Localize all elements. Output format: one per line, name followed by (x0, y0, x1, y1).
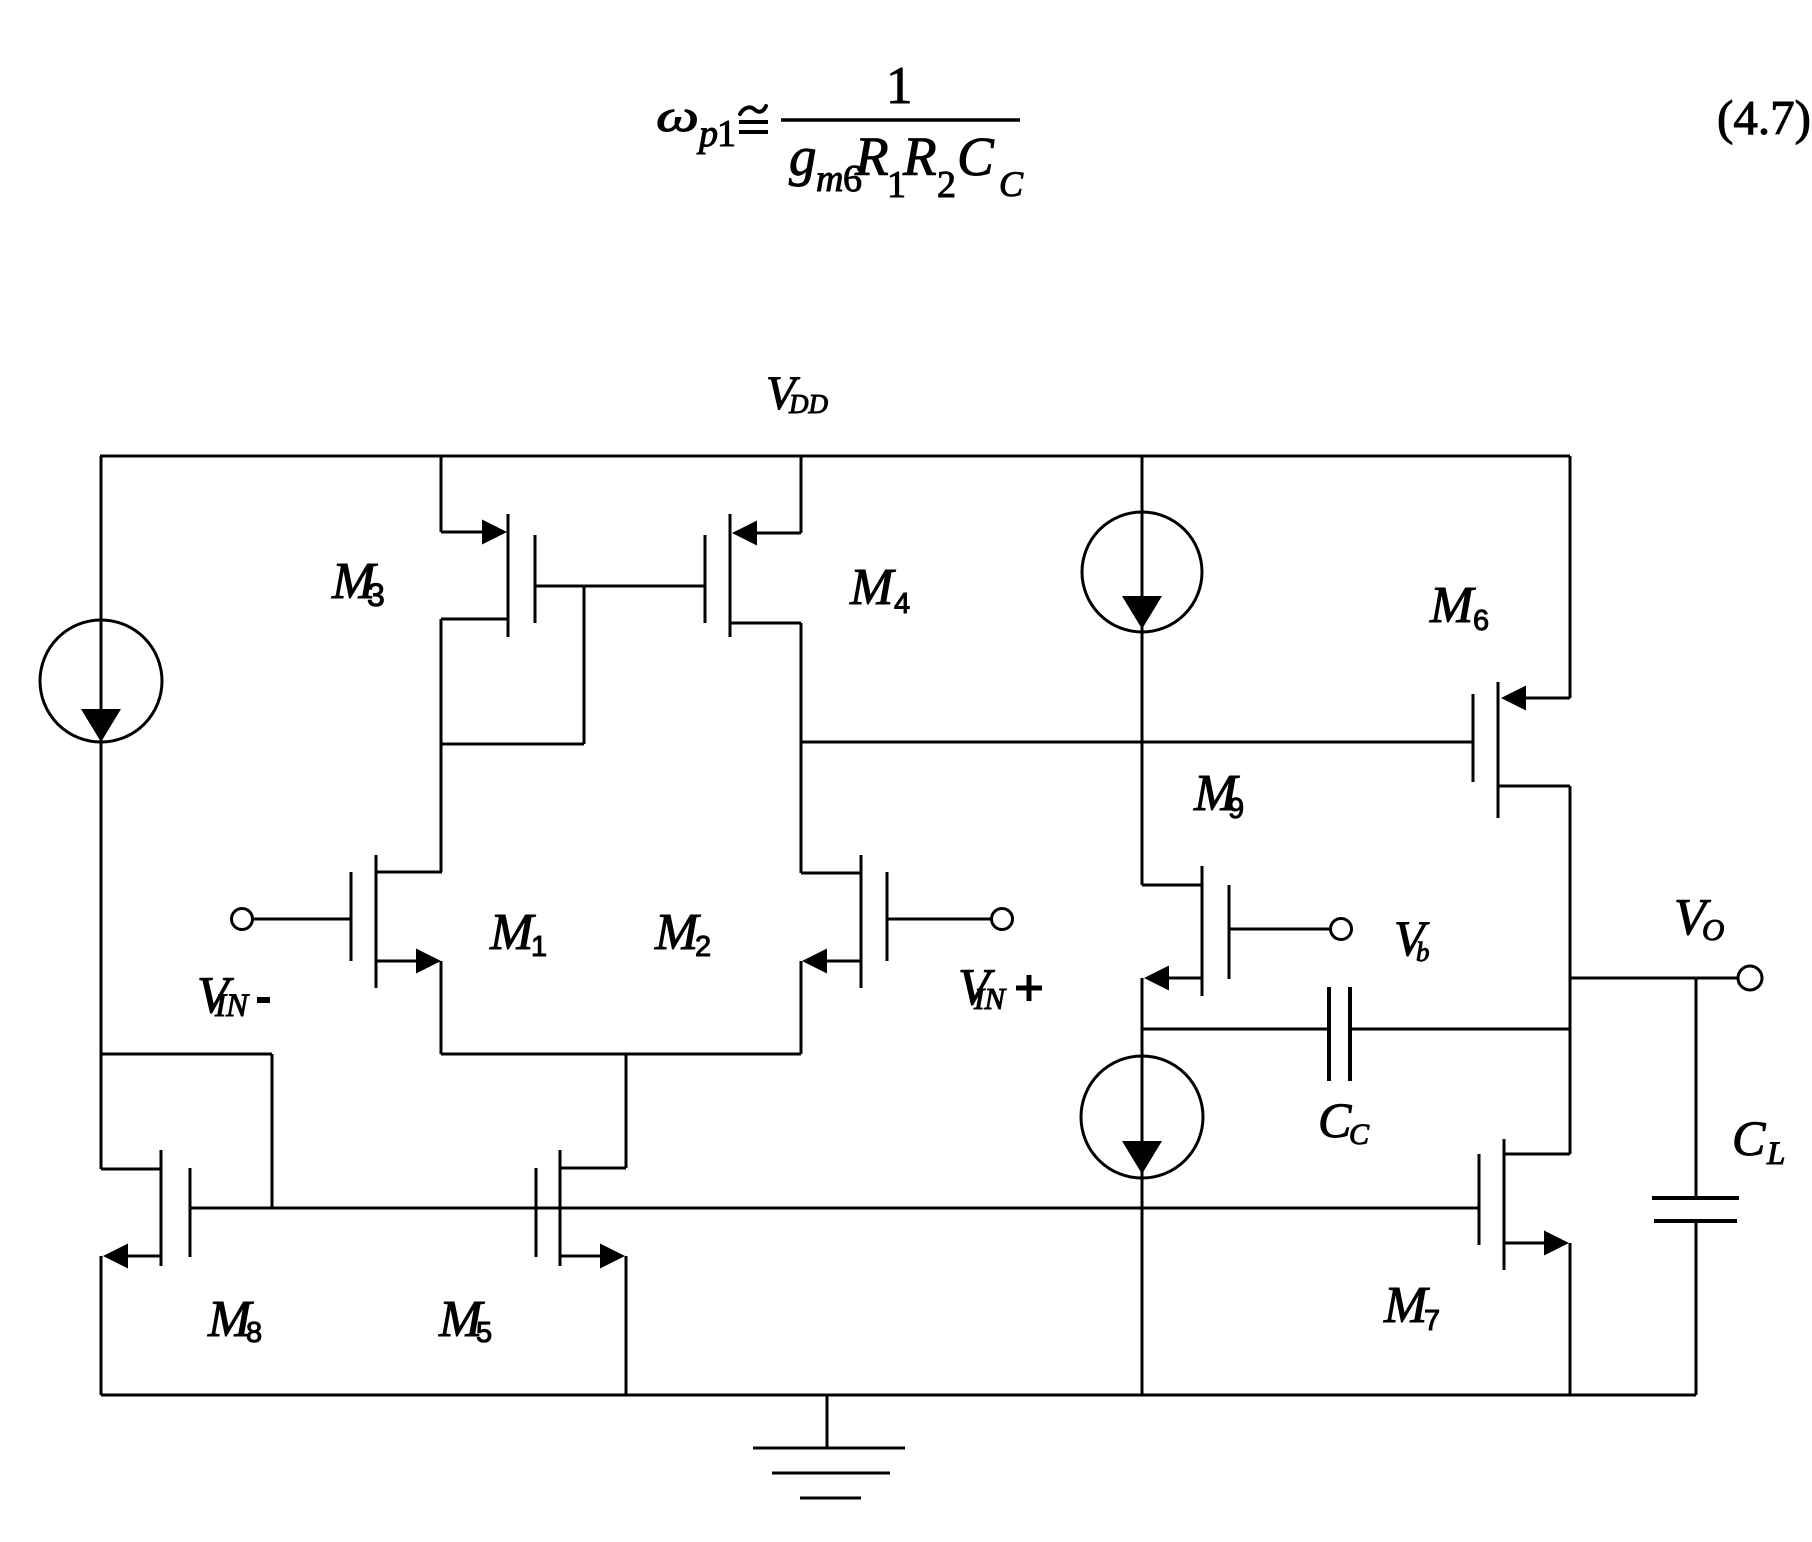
svg-text:5: 5 (476, 1317, 492, 1349)
svg-text:2: 2 (937, 164, 956, 206)
svg-text:b: b (1416, 937, 1430, 967)
svg-text:M: M (1383, 1277, 1430, 1334)
svg-text:IN: IN (973, 981, 1007, 1016)
svg-text:IN: IN (214, 988, 250, 1024)
svg-text:R: R (902, 126, 937, 187)
svg-text:9: 9 (1228, 793, 1244, 825)
svg-text:DD: DD (788, 389, 828, 419)
svg-text:g: g (789, 126, 817, 187)
svg-text:1: 1 (531, 931, 547, 963)
svg-text:M: M (849, 559, 896, 616)
svg-text:O: O (1702, 912, 1724, 947)
svg-text:C: C (1349, 1118, 1370, 1151)
svg-text:M: M (654, 904, 701, 961)
svg-text:p: p (696, 113, 718, 155)
svg-text:L: L (1766, 1136, 1785, 1172)
svg-text:C: C (999, 164, 1024, 204)
svg-text:R: R (854, 126, 889, 187)
svg-text:6: 6 (1473, 605, 1489, 637)
svg-text:4: 4 (894, 588, 910, 620)
svg-text:C: C (1732, 1110, 1766, 1166)
svg-text:1: 1 (886, 57, 913, 115)
svg-text:3: 3 (367, 577, 385, 613)
svg-text:M: M (489, 904, 536, 961)
svg-text:C: C (1318, 1092, 1352, 1148)
svg-text:8: 8 (246, 1317, 262, 1349)
svg-text:M: M (1429, 577, 1476, 634)
svg-text:1: 1 (717, 113, 736, 155)
svg-text:7: 7 (1424, 1305, 1440, 1337)
svg-text:2: 2 (695, 931, 711, 963)
svg-text:(4.7): (4.7) (1717, 90, 1811, 145)
svg-text:m: m (816, 158, 843, 200)
svg-text:C: C (957, 126, 995, 187)
svg-text:ω: ω (656, 90, 699, 141)
